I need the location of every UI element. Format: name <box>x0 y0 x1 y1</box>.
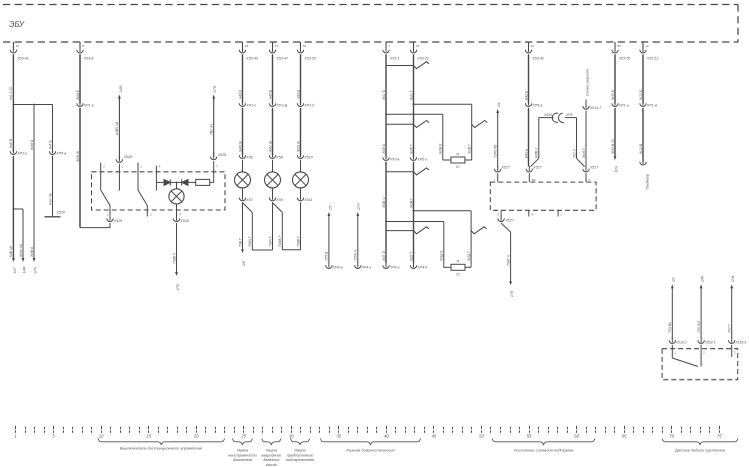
remote control switch block dashed box <box>92 172 226 210</box>
svg-text:1/7а: 1/7а <box>731 276 735 282</box>
svg-text:X526: X526 <box>113 219 122 223</box>
svg-text:Жл8 Б: Жл8 Б <box>30 139 34 151</box>
lamp column X510 wire upper <box>296 54 300 103</box>
wire to XP5-v <box>48 105 52 152</box>
connector X526 upper-left <box>116 155 132 163</box>
svg-text:Ж55 Б: Ж55 Б <box>611 89 615 101</box>
svg-text:30: 30 <box>289 434 294 439</box>
brace oil pressure lamp <box>261 438 281 467</box>
svg-text:X56: X56 <box>245 156 252 160</box>
wire H4 with check <box>386 168 429 175</box>
svg-text:40: 40 <box>384 434 389 439</box>
svg-text:XP4-г: XP4-г <box>389 266 400 270</box>
clutch pin stub 2 <box>701 345 705 355</box>
connector X57 <box>239 195 253 202</box>
svg-text:25: 25 <box>240 434 246 439</box>
svg-text:ЖлВ Б: ЖлВ Б <box>30 246 34 258</box>
svg-text:КчЛ В: КчЛ В <box>9 138 13 148</box>
wire arrow 2/4F <box>115 85 123 159</box>
connector XP5-a <box>525 100 542 107</box>
svg-text:708Ч Г: 708Ч Г <box>268 235 272 247</box>
connector X518-3 <box>729 337 747 344</box>
svg-text:50: 50 <box>479 434 484 439</box>
wire X53-21 down (diag B) <box>409 54 413 157</box>
wire lamp3 output <box>296 202 300 250</box>
wire XP1-zh to tachometer <box>639 108 643 162</box>
svg-text:Ж55 В 10: Ж55 В 10 <box>611 139 615 155</box>
svg-text:10: 10 <box>456 273 460 277</box>
lamp X510 <box>293 160 309 196</box>
svg-text:Ч47 Б: Ч47 Б <box>268 89 272 99</box>
connector X56 <box>239 152 252 159</box>
svg-text:Выключатель дистанционного упр: Выключатель дистанционного управления <box>120 445 203 450</box>
svg-text:КчВ Ч6: КчВ Ч6 <box>9 246 13 257</box>
svg-text:Ж47 Ж: Ж47 Ж <box>268 140 272 153</box>
svg-text:Кчт Ч6: Кчт Ч6 <box>48 193 52 205</box>
svg-text:Б42-в: Б42-в <box>524 149 528 158</box>
connector XP4-b B end <box>410 262 428 269</box>
ECU pin X53-8 <box>77 42 94 60</box>
svg-text:42: 42 <box>531 44 535 48</box>
connector tachometer <box>640 159 650 190</box>
svg-text:Ж2В Г: Ж2В Г <box>468 143 472 155</box>
svg-text:Ж0Г Б: Ж0Г Б <box>382 250 386 262</box>
svg-text:аварийного: аварийного <box>261 453 281 457</box>
ECU pin X53-47 <box>269 42 289 60</box>
svg-text:Ж12 В: Ж12 В <box>639 143 643 155</box>
wire XP5-a to X527 <box>524 108 528 167</box>
wire XP1-a lower <box>611 108 615 156</box>
harness arrow 1/2Ch <box>614 156 619 172</box>
svg-text:X527: X527 <box>589 165 599 169</box>
amp pin stub bottom 2 <box>529 210 534 216</box>
wire H7 with check <box>386 227 429 234</box>
svg-text:1/7Л: 1/7Л <box>357 203 361 210</box>
svg-text:XP1-ж: XP1-ж <box>646 104 658 108</box>
clutch pin stub 3 <box>732 345 736 355</box>
svg-text:Ж2Д Г: Ж2Д Г <box>467 250 471 262</box>
svg-text:705 Ж3: 705 Ж3 <box>697 321 701 333</box>
svg-text:X57: X57 <box>245 198 253 202</box>
wire X53-12 down <box>639 54 643 103</box>
wire X53-41 down <box>9 54 13 104</box>
svg-text:X526: X526 <box>123 155 132 159</box>
wire arrow 1/3 <box>668 277 676 338</box>
svg-text:60: 60 <box>574 434 579 439</box>
connector X526 lamp output <box>173 216 188 223</box>
svg-text:705Ч Ч: 705Ч Ч <box>354 249 358 261</box>
node junction bus <box>13 104 53 106</box>
svg-text:Ж0В Б: Ж0В Б <box>439 143 443 155</box>
check on C2 <box>471 227 487 234</box>
svg-text:XP4-г: XP4-г <box>361 266 372 270</box>
svg-text:70Ч Вч: 70Ч Вч <box>668 322 672 333</box>
connector XP3-k <box>383 154 400 161</box>
svg-text:X53-8: X53-8 <box>83 56 94 60</box>
switch S2 contact <box>138 163 152 217</box>
svg-text:Ж12 Б: Ж12 Б <box>639 89 643 101</box>
svg-text:Ч43 Б: Ч43 Б <box>238 89 242 99</box>
svg-text:Усилитель сигналов подогрева: Усилитель сигналов подогрева <box>514 447 575 452</box>
wire from X526 contact <box>119 164 123 191</box>
svg-text:двигателя: двигателя <box>233 458 252 462</box>
svg-text:Ж2б Г: Ж2б Г <box>409 143 413 155</box>
svg-text:10: 10 <box>99 434 104 439</box>
svg-text:55: 55 <box>527 434 532 439</box>
svg-text:2/4Ф: 2/4Ф <box>119 85 123 93</box>
connector XP1-a <box>612 100 629 107</box>
resistor R1 <box>196 179 214 185</box>
svg-text:41: 41 <box>16 44 20 48</box>
svg-text:2: 2 <box>702 351 705 355</box>
connector XP1-ф <box>269 100 287 107</box>
svg-text:X53-41: X53-41 <box>16 56 29 60</box>
svg-text:2/7б: 2/7б <box>176 284 180 291</box>
wire X514-7 down <box>582 111 586 167</box>
svg-text:XP1-в: XP1-в <box>83 104 94 108</box>
svg-text:X520: X520 <box>56 211 65 215</box>
wire link H0 with check <box>386 62 429 69</box>
svg-text:X510: X510 <box>303 156 312 160</box>
svg-text:X53-42: X53-42 <box>531 56 544 60</box>
lamp X56 <box>235 160 251 196</box>
wire H3 with check <box>386 121 429 128</box>
svg-text:XP5-а: XP5-а <box>531 104 542 108</box>
svg-text:X53-55: X53-55 <box>618 56 631 60</box>
connector XP1-g <box>10 148 27 155</box>
wire XP1-ф to X58 <box>268 108 272 156</box>
svg-text:12: 12 <box>645 44 649 48</box>
svg-text:45: 45 <box>432 434 437 439</box>
svg-text:XP5-л: XP5-л <box>416 158 427 162</box>
brace diagnostic connector <box>321 438 421 452</box>
wire XP1-б to X510 <box>296 108 300 156</box>
connector X527 pin g <box>495 165 511 172</box>
wire twisted left <box>531 118 554 167</box>
svg-text:70: 70 <box>669 434 674 439</box>
connector X514-7 <box>583 100 603 110</box>
connector XP4-v <box>326 262 343 269</box>
resistor R3 diag lower <box>444 260 471 277</box>
diode VD1 <box>156 179 176 185</box>
wire twisted right <box>565 118 585 167</box>
svg-text:Ж43 Ж: Ж43 Ж <box>238 140 242 153</box>
svg-text:XP3-к: XP3-к <box>389 158 400 162</box>
wire to XP1-g <box>9 105 13 152</box>
svg-text:КчГ Б: КчГ Б <box>48 139 52 149</box>
amp pin stubs top <box>494 173 591 182</box>
harness arrow 2/2G <box>12 258 17 275</box>
connector XP1-с <box>239 100 256 107</box>
wire to ground <box>48 156 52 216</box>
svg-text:1/4: 1/4 <box>497 102 501 107</box>
svg-text:X527: X527 <box>501 165 511 169</box>
ECU pin X53-42 <box>525 42 544 60</box>
connector XP5-v <box>49 148 66 155</box>
svg-text:XP1-б: XP1-б <box>303 104 315 108</box>
connector X511 <box>297 195 312 202</box>
svg-text:2/7Я: 2/7Я <box>213 85 217 93</box>
wire H2 A to D <box>385 113 443 157</box>
connector X527 output <box>498 216 515 223</box>
ECU pin X53-55 <box>612 42 631 60</box>
check on C <box>472 121 488 128</box>
wire X53-55 down <box>611 54 615 103</box>
ECU pin X53-12 <box>640 42 659 60</box>
wire X53-42 down <box>524 54 528 103</box>
connector XP4-g A end <box>383 262 400 269</box>
lamp feed stub pin 4 <box>156 165 160 191</box>
ECU block (ЭБУ) dashed outline <box>3 5 738 43</box>
svg-text:XP5-в: XP5-в <box>55 152 66 156</box>
svg-text:X526: X526 <box>217 153 226 157</box>
wire arrow 1/4 <box>494 102 502 166</box>
connector X527 pin vzh <box>526 165 542 172</box>
svg-text:Лампа: Лампа <box>265 449 277 453</box>
svg-text:X53-43: X53-43 <box>245 56 258 60</box>
svg-text:X53-1: X53-1 <box>389 56 400 60</box>
svg-text:2/2Г: 2/2Г <box>13 267 17 274</box>
svg-text:Ж01 Б: Ж01 Б <box>382 89 386 101</box>
svg-text:XP1-с: XP1-с <box>245 104 256 108</box>
svg-text:XP1-а: XP1-а <box>618 104 629 108</box>
svg-text:35: 35 <box>336 434 341 439</box>
wire arrow 2/7Ya <box>210 85 218 157</box>
svg-text:Ж08 Б: Ж08 Б <box>76 89 80 101</box>
svg-text:Л: Л <box>496 213 499 217</box>
svg-text:Жлт Ч6: Жлт Ч6 <box>19 244 23 258</box>
svg-text:7б2 С: 7б2 С <box>572 148 576 158</box>
svg-text:Жл4 Г: Жл4 Г <box>582 147 586 159</box>
svg-text:20: 20 <box>193 434 199 439</box>
svg-text:1: 1 <box>14 434 16 439</box>
svg-text:708Ж Г: 708Ж Г <box>278 234 282 247</box>
wire H1 B to C <box>413 103 472 157</box>
svg-text:X53-53: X53-53 <box>303 56 316 60</box>
wire XP1-с to X56 <box>238 108 242 156</box>
svg-text:55: 55 <box>617 44 621 48</box>
svg-text:65: 65 <box>622 434 627 439</box>
svg-text:X59: X59 <box>275 198 282 202</box>
svg-text:Ж0б Б: Ж0б Б <box>382 143 386 155</box>
wire H6 A to D2 <box>385 221 444 265</box>
svg-text:R: R <box>456 152 459 156</box>
connector X518-2 <box>669 337 687 344</box>
wire diag B lower <box>409 162 413 263</box>
wire amp output down <box>501 223 511 281</box>
ECU pin X53-21 <box>410 42 429 60</box>
svg-text:43: 43 <box>245 44 249 48</box>
svg-text:Сигнал скорости: Сигнал скорости <box>585 69 589 96</box>
svg-text:75: 75 <box>717 434 722 439</box>
svg-text:Ж2Г Г: Ж2Г Г <box>409 250 413 262</box>
ECU pin X53-53 <box>297 42 316 60</box>
svg-text:2: 2 <box>102 165 105 169</box>
svg-text:7Л5 В: 7Л5 В <box>325 251 329 261</box>
svg-text:XP1-ф: XP1-ф <box>275 104 287 108</box>
svg-text:X518-3: X518-3 <box>734 340 746 344</box>
amplifier block dashed box <box>490 182 596 210</box>
svg-text:53: 53 <box>303 44 307 48</box>
svg-text:15: 15 <box>146 434 151 439</box>
wire X53-8 down <box>76 54 80 103</box>
svg-text:X526: X526 <box>543 113 552 117</box>
wire H5 B to C2 <box>413 210 472 264</box>
svg-text:X518-1: X518-1 <box>704 340 716 344</box>
connector X526 lower-left <box>107 216 122 223</box>
connector XP5-l <box>410 154 427 161</box>
svg-text:X53-21: X53-21 <box>416 56 429 60</box>
clutch pedal sensor dashed box <box>662 349 738 380</box>
svg-text:1/3: 1/3 <box>672 277 676 282</box>
svg-text:708Г Ч: 708Г Ч <box>506 255 510 266</box>
wire branch to 1/4F <box>13 209 23 258</box>
svg-text:XP6: XP6 <box>565 113 573 117</box>
connector X59 <box>269 195 282 202</box>
svg-text:707 Г: 707 Г <box>728 323 732 333</box>
svg-text:БМВ С: БМВ С <box>535 147 539 158</box>
svg-text:неисправности: неисправности <box>228 452 257 457</box>
connector X527 pin b <box>583 165 599 172</box>
switch S1 contact <box>101 163 110 217</box>
svg-text:Ж0Д Б: Ж0Д Б <box>440 250 444 262</box>
harness arrow 2/7b <box>175 272 180 292</box>
lamp HL4 in block <box>169 182 184 216</box>
svg-text:2/7Ч: 2/7Ч <box>33 266 37 274</box>
twisted pair connector X526/XP6 <box>543 113 573 123</box>
svg-text:R: R <box>457 260 460 264</box>
svg-text:Разъем диагностический: Разъем диагностический <box>346 447 395 452</box>
connector XP1-б <box>297 100 315 107</box>
svg-text:масла: масла <box>266 463 277 467</box>
svg-text:70Л0 ЛБ: 70Л0 ЛБ <box>494 144 498 158</box>
wire lamp1 output / arrow 1/1G <box>238 202 246 266</box>
wire arrow 1/5б <box>697 276 705 339</box>
connector XP1-zh <box>640 100 658 107</box>
harness arrow 1/7b <box>509 281 514 297</box>
connector XP4-g <box>355 262 372 269</box>
connector X58 <box>269 152 282 159</box>
wire arrow 1/7L <box>354 203 362 263</box>
wire arrow 1/5 <box>325 205 333 263</box>
connector XP1-v <box>77 100 94 107</box>
svg-text:X58: X58 <box>275 156 282 160</box>
lamp column X58 wire upper <box>268 54 272 103</box>
clutch pin stub 1 <box>672 345 676 355</box>
svg-text:давления: давления <box>263 458 279 462</box>
svg-text:X514-7: X514-7 <box>589 106 603 110</box>
resistor R2 diag upper <box>443 152 472 169</box>
node lamp junction <box>176 182 178 184</box>
svg-text:X518-2: X518-2 <box>675 340 687 344</box>
wire X53-1 down (diag A) <box>382 54 386 157</box>
ECU pin X53-1 <box>383 42 400 60</box>
wire lower left 1 <box>9 156 14 258</box>
position ruler <box>14 426 722 439</box>
svg-text:X527: X527 <box>505 218 515 222</box>
brace preheater lamp <box>286 438 315 462</box>
svg-text:Ж2В Г: Ж2В Г <box>409 197 413 209</box>
svg-text:1/4Ф: 1/4Ф <box>22 266 26 273</box>
svg-text:X53-47: X53-47 <box>275 56 289 60</box>
svg-text:КчВЧ Ч6: КчВЧ Ч6 <box>115 122 119 135</box>
wire lamp1 jog <box>243 203 273 250</box>
svg-text:1/7б: 1/7б <box>510 291 514 297</box>
svg-text:1/5: 1/5 <box>328 205 332 210</box>
svg-text:70В Г: 70В Г <box>238 237 242 247</box>
wire lamp2 output <box>268 202 272 250</box>
svg-text:Ж0В Ч: Ж0В Ч <box>382 197 386 209</box>
svg-text:Ж21 Г: Ж21 Г <box>409 89 413 101</box>
svg-text:X511: X511 <box>303 198 312 202</box>
brace remote control switch <box>98 438 224 450</box>
wire arrow 1/7а <box>728 276 736 339</box>
wire to switch block <box>76 108 110 228</box>
brace signal amplifier <box>492 438 595 452</box>
harness arrow 1/4F <box>22 258 27 274</box>
svg-text:X53-12: X53-12 <box>646 56 659 60</box>
svg-text:47: 47 <box>275 44 279 48</box>
svg-text:7ВС Кч: 7ВС Кч <box>210 124 214 135</box>
lamp column X56 wire upper <box>238 54 242 103</box>
svg-text:Тахометр: Тахометр <box>645 174 649 190</box>
svg-text:21: 21 <box>415 44 420 48</box>
svg-text:Датчик педали сцепления: Датчик педали сцепления <box>674 447 726 452</box>
ECU pin X53-43 <box>239 42 258 60</box>
wire resistor to X526 upper-right <box>214 161 219 182</box>
svg-text:708Ч Г: 708Ч Г <box>248 235 252 247</box>
ECU pin X53-41 <box>10 42 29 60</box>
svg-text:1/5б: 1/5б <box>701 276 705 282</box>
svg-text:1/1Г: 1/1Г <box>242 260 246 266</box>
svg-text:708В Г: 708В Г <box>296 235 300 247</box>
svg-text:Ж08 Ж: Ж08 Ж <box>76 150 80 163</box>
svg-text:Кч1.5 10: Кч1.5 10 <box>9 87 13 100</box>
ground X520 <box>45 211 65 217</box>
wire lamp2 jog <box>273 203 301 250</box>
svg-text:10: 10 <box>456 165 460 169</box>
wire lamp output down <box>172 223 176 272</box>
connector X510 <box>297 152 312 159</box>
svg-text:1/2Ч: 1/2Ч <box>614 165 618 172</box>
svg-text:Ч53 Б: Ч53 Б <box>296 89 300 99</box>
brace clutch pedal sensor <box>662 438 738 452</box>
clutch switch contact <box>672 349 731 367</box>
svg-text:XP1-г: XP1-г <box>16 152 27 156</box>
amp pin stub bottom 1 <box>496 210 501 216</box>
svg-text:X526: X526 <box>179 219 188 223</box>
svg-text:X527: X527 <box>532 165 542 169</box>
svg-text:XP4-б: XP4-б <box>416 266 428 270</box>
harness arrow 2/7Ch <box>33 258 38 275</box>
svg-text:XP4-в: XP4-в <box>332 266 343 270</box>
svg-text:Б42 Б: Б42 Б <box>524 90 528 100</box>
svg-text:ЭБУ: ЭБУ <box>9 20 25 29</box>
svg-text:Ж53 Ж: Ж53 Ж <box>296 140 300 153</box>
wire branch middle <box>30 105 34 259</box>
svg-text:708В Ч: 708В Ч <box>172 252 176 264</box>
connector X526 upper-right <box>211 153 227 160</box>
amp pin stub bottom 3 <box>558 210 563 216</box>
lamp X58 <box>265 160 281 196</box>
brace engine fault lamp <box>228 438 257 462</box>
diode VD2 <box>177 179 196 185</box>
connector X518-1 <box>698 337 716 344</box>
svg-text:подогревателя: подогревателя <box>286 457 315 462</box>
wire diag A lower <box>382 162 386 263</box>
